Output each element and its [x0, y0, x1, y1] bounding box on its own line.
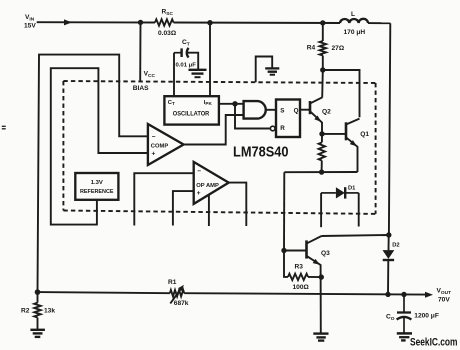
svg-text:15V: 15V	[24, 23, 36, 30]
svg-text:−: −	[152, 133, 156, 140]
wire COMP output to AND gate	[184, 115, 244, 145]
svg-text:R1: R1	[168, 279, 177, 286]
svg-text:L: L	[351, 11, 355, 18]
wire inductor to right rail	[368, 22, 390, 24]
wire Q output	[300, 109, 310, 111]
svg-text:70V: 70V	[438, 297, 450, 304]
wire CT pin	[173, 53, 175, 96]
equals mark left edge	[2, 126, 6, 129]
node junction VCC top	[138, 20, 143, 25]
svg-text:S: S	[280, 107, 284, 114]
wire R2 top lead	[37, 292, 39, 303]
wire driver collector pin to Q3 base	[283, 172, 285, 250]
svg-text:OSCILLATOR: OSCILLATOR	[173, 111, 210, 118]
ground below Q3	[313, 334, 328, 341]
wire R2 bottom lead	[37, 318, 39, 330]
resistor internal (Q2 emitter)	[319, 143, 325, 161]
resistor RSC	[155, 19, 174, 25]
svg-text:CT: CT	[168, 100, 175, 106]
wire reference to COMP plus	[51, 68, 148, 224]
wire R3 to emitter node	[308, 276, 321, 278]
node junction R3 right	[319, 274, 324, 279]
wire to R input	[235, 104, 270, 129]
svg-text:0.03Ω: 0.03Ω	[158, 30, 177, 37]
svg-text:LM78S40: LM78S40	[233, 144, 289, 161]
svg-text:COMP: COMP	[151, 144, 169, 150]
wire AND output to S	[266, 109, 276, 111]
svg-text:−: −	[197, 168, 201, 175]
node junction resistor bottom	[319, 169, 324, 174]
wire R4 node to Q2 collector	[321, 70, 324, 98]
capacitor CO	[397, 295, 412, 333]
node junction rail VOUT	[385, 292, 390, 297]
wire opamp minus input with pin stub	[134, 173, 193, 225]
inductor L	[340, 19, 368, 23]
svg-text:Q: Q	[294, 107, 299, 114]
wire D1 anode pin stub	[320, 193, 322, 227]
wire RSC to inductor	[174, 22, 341, 25]
wire Q3 base to R3	[284, 251, 288, 277]
svg-text:687k: 687k	[174, 300, 189, 307]
diode D1	[321, 187, 359, 198]
ground below R2	[30, 330, 45, 337]
node junction Q2 emitter	[319, 131, 324, 136]
node junction CO top	[401, 292, 406, 297]
node junction Q3 collector / rail	[386, 232, 391, 237]
wire Q2 emitter to Q1 base	[322, 133, 346, 135]
wire opamp plus input with pin stub	[173, 191, 194, 225]
arrow on VIN wire	[64, 19, 72, 25]
wire feedback to COMP minus	[38, 55, 148, 293]
node VIN label	[24, 14, 36, 30]
wire bottom horizontal	[284, 171, 357, 173]
svg-text:IPK: IPK	[204, 100, 213, 106]
wire VOUT line left	[38, 292, 170, 293]
node junction R4 bottom	[320, 67, 325, 72]
flip-flop box	[276, 100, 300, 138]
svg-text:R4: R4	[307, 44, 316, 51]
op-amp OP AMP	[194, 162, 229, 204]
svg-text:13k: 13k	[44, 308, 55, 315]
wire resistor to bottom node	[321, 161, 323, 173]
wire VCC	[139, 22, 141, 81]
svg-text:REFERENCE: REFERENCE	[80, 189, 114, 195]
IC package dashed box	[63, 81, 375, 214]
node junction oscillator output	[232, 101, 237, 106]
ground below CO	[397, 333, 412, 340]
wire D1 cathode pin stub	[358, 193, 360, 227]
svg-text:Q3: Q3	[321, 250, 330, 257]
AND gate U1	[244, 101, 266, 119]
svg-text:+: +	[197, 190, 201, 197]
wire R4 node to Q1 collector	[323, 70, 360, 117]
arrow VOUT	[425, 292, 433, 298]
transistor Q3	[307, 236, 322, 333]
wire opamp output pin stub	[229, 183, 247, 226]
op-amp COMP	[148, 124, 184, 165]
node junction IPK top	[207, 20, 212, 25]
diode D2	[383, 250, 395, 260]
wire oscillator output	[219, 103, 244, 105]
svg-text:SeekIC.com: SeekIC.com	[410, 337, 458, 349]
wire R4 bottom lead	[322, 56, 324, 71]
svg-text:R3: R3	[295, 264, 304, 271]
node junction R4 top	[320, 20, 325, 25]
svg-text:Q2: Q2	[322, 109, 331, 116]
capacitor CT	[174, 48, 198, 69]
transistor Q2	[310, 97, 322, 133]
ground near CT	[189, 70, 207, 77]
svg-text:R: R	[280, 125, 285, 132]
wire opamp ground pin stub	[208, 195, 210, 226]
svg-text:Q1: Q1	[360, 131, 369, 138]
svg-text:0.01 μF: 0.01 μF	[176, 62, 197, 68]
wire VOUT line right	[184, 293, 425, 294]
svg-text:1200 μF: 1200 μF	[414, 313, 439, 320]
node junction Q3 base	[281, 248, 286, 253]
wire Q3 base	[284, 250, 306, 252]
svg-text:D1: D1	[348, 186, 356, 192]
wire R4 top lead	[322, 23, 324, 41]
svg-text:BIAS: BIAS	[133, 85, 149, 92]
wire IPK pin	[209, 23, 211, 97]
svg-text:100Ω: 100Ω	[293, 284, 310, 291]
oscillator box	[164, 96, 219, 124]
resistor R1 (variable)	[170, 285, 184, 304]
wire Q2 emitter node down	[321, 134, 323, 143]
wire right rail down	[388, 23, 390, 294]
voltage reference box	[75, 173, 118, 200]
svg-text:170 μH: 170 μH	[344, 29, 366, 36]
svg-text:+: +	[152, 150, 156, 157]
resistor R4	[320, 41, 326, 56]
wire VIN input	[37, 21, 155, 23]
resistor R3	[288, 274, 308, 280]
wire ground bracket	[256, 57, 273, 83]
svg-text:1.3V: 1.3V	[91, 180, 103, 186]
node junction R2 top	[35, 289, 41, 295]
transistor Q1	[346, 119, 360, 172]
wire Q3 collector to rail	[322, 235, 389, 236]
svg-text:OP AMP: OP AMP	[196, 183, 219, 189]
inverter bubble at R	[270, 126, 275, 131]
resistor R2	[34, 303, 40, 318]
ground on bias line	[265, 68, 279, 74]
svg-text:D2: D2	[392, 242, 399, 248]
svg-text:R2: R2	[21, 308, 30, 315]
svg-text:27Ω: 27Ω	[332, 45, 345, 52]
